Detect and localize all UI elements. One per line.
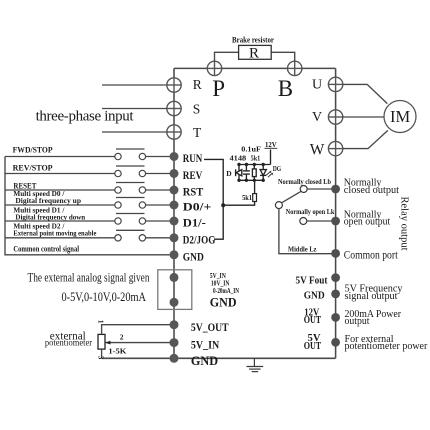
svg-text:S: S	[193, 102, 201, 117]
terminal S	[167, 101, 181, 115]
node 12V OUT	[331, 313, 340, 322]
svg-text:potentiometer: potentiometer	[45, 339, 93, 349]
relay pivot Lz	[275, 202, 282, 209]
svg-text:R: R	[193, 77, 202, 92]
relay arm	[282, 191, 301, 202]
digital input row REV/STOP	[5, 163, 174, 177]
svg-text:D: D	[226, 169, 232, 178]
terminal V	[328, 110, 342, 124]
svg-text:V: V	[312, 110, 322, 125]
wire S phase input	[102, 108, 167, 110]
svg-text:W: W	[310, 141, 325, 158]
digital input row D1	[5, 205, 174, 224]
wire snubber bottom rail	[239, 179, 263, 181]
svg-text:IM: IM	[390, 107, 410, 126]
svg-text:closed output: closed output	[344, 185, 399, 196]
svg-text:2: 2	[120, 332, 124, 341]
wire RUN to snubber and D2 hook	[204, 159, 223, 239]
terminal W	[328, 141, 342, 155]
svg-text:OUT: OUT	[304, 315, 322, 326]
relay contact NO Lk	[300, 218, 307, 225]
svg-text:U: U	[312, 78, 322, 93]
switch REV/STOP	[116, 165, 145, 167]
svg-text:Brake resistor: Brake resistor	[232, 35, 274, 45]
svg-text:T: T	[193, 125, 202, 140]
svg-text:0-20mA_IN: 0-20mA_IN	[213, 287, 239, 295]
svg-text:B: B	[278, 76, 293, 101]
node REV	[170, 169, 179, 178]
digital input row FWD/STOP	[5, 145, 174, 160]
svg-text:External point moving enable: External point moving enable	[13, 229, 97, 238]
svg-text:The external analog signal giv: The external analog signal given	[28, 270, 150, 285]
svg-text:Common control signal: Common control signal	[13, 244, 79, 254]
svg-text:FWD/STOP: FWD/STOP	[13, 145, 53, 155]
svg-text:Normally open Lk: Normally open Lk	[286, 207, 335, 216]
wire 5k1 to bottom rail	[254, 180, 256, 193]
node snubber rail dots	[237, 163, 265, 182]
svg-text:GND: GND	[304, 291, 325, 302]
wire pot pin2 wiper	[105, 342, 174, 344]
wire row REV	[5, 173, 115, 175]
svg-text:12V: 12V	[265, 140, 277, 149]
wire pot pin1	[102, 325, 174, 335]
svg-text:RST: RST	[183, 187, 204, 199]
svg-text:1-5K: 1-5K	[108, 347, 126, 356]
wire bottom edge GND	[102, 357, 336, 359]
wire top edge	[174, 67, 336, 69]
digital input row D0	[5, 189, 174, 208]
svg-text:Relay output: Relay output	[399, 197, 410, 251]
svg-text:0-5V,0-10V,0-20mA: 0-5V,0-10V,0-20mA	[62, 289, 147, 304]
node GND out	[331, 290, 340, 299]
node RUN	[170, 152, 179, 161]
svg-text:REV: REV	[183, 170, 203, 182]
svg-text:potentiometer power: potentiometer power	[345, 341, 428, 352]
node GND bottom	[170, 354, 179, 363]
capacitor 0.1uF	[243, 165, 250, 181]
node 5V_IN left	[170, 338, 179, 347]
node D0	[170, 201, 179, 210]
wiper arrow	[105, 341, 111, 345]
node NC output	[331, 185, 340, 194]
wire row D2	[5, 237, 115, 239]
svg-text:Digital frequency down: Digital frequency down	[15, 212, 86, 221]
svg-text:D0/+: D0/+	[183, 202, 212, 214]
terminal R	[167, 78, 181, 92]
svg-text:R: R	[249, 46, 259, 62]
svg-text:DG: DG	[273, 164, 282, 173]
wire row D1	[5, 220, 115, 222]
svg-text:5V_OUT: 5V_OUT	[191, 322, 229, 334]
motor IM	[384, 101, 416, 133]
node NO output	[331, 217, 340, 226]
wire right bus vertical	[335, 68, 337, 358]
switch D0	[116, 197, 145, 199]
relay contact NC Lb	[300, 186, 307, 193]
node snubber junction	[221, 203, 225, 207]
node 5V_OUT left	[170, 320, 179, 329]
terminal U	[328, 77, 342, 91]
node D1	[170, 217, 179, 226]
switch D1	[116, 213, 145, 215]
wire junction to 5k1	[223, 202, 254, 206]
wire row RST	[5, 189, 115, 191]
resistor 5k1 branch	[252, 165, 256, 181]
wire NC to bus	[307, 188, 335, 190]
wire T phase input	[102, 131, 167, 133]
wire left bus vertical	[173, 68, 175, 358]
wire pot pin3	[101, 349, 103, 358]
svg-text:Digital frequency up: Digital frequency up	[15, 196, 81, 205]
diode D	[236, 165, 242, 181]
resistor 5k1 lower	[253, 194, 257, 202]
switch FWD/STOP	[116, 148, 145, 150]
svg-text:Common port: Common port	[344, 248, 399, 262]
wire V to motor	[343, 116, 384, 118]
svg-text:GND: GND	[183, 252, 204, 264]
resistor R brake	[239, 45, 272, 59]
svg-text:open output: open output	[344, 217, 390, 228]
svg-text:5V_IN: 5V_IN	[191, 340, 220, 352]
svg-text:5V Fout: 5V Fout	[296, 274, 328, 286]
terminal B	[288, 61, 302, 75]
wire snubber top rail	[239, 164, 271, 166]
wire input common rail	[5, 157, 170, 255]
wire row RUN	[5, 156, 115, 158]
node analog gnd	[170, 298, 179, 307]
svg-text:5k1: 5k1	[242, 193, 252, 202]
switch RESET	[116, 182, 145, 184]
potentiometer 1-5K	[98, 334, 105, 349]
svg-text:5k1: 5k1	[251, 153, 261, 162]
wire NO to bus	[307, 220, 336, 222]
node RST	[170, 186, 179, 195]
svg-text:GND: GND	[210, 295, 237, 309]
svg-text:3: 3	[97, 356, 106, 360]
svg-text:Middle Lz: Middle Lz	[288, 245, 317, 254]
digital input row D2	[5, 222, 174, 241]
wire brake resistor right	[271, 52, 295, 61]
node 5V OUT	[331, 338, 340, 347]
svg-text:Normally closed Lb: Normally closed Lb	[278, 177, 331, 186]
svg-text:4148: 4148	[230, 153, 247, 162]
svg-text:RUN: RUN	[183, 153, 203, 165]
svg-text:REV/STOP: REV/STOP	[13, 163, 53, 173]
node D2	[170, 233, 179, 242]
node GND control	[170, 250, 179, 259]
svg-text:D2/JOG: D2/JOG	[183, 235, 216, 247]
node analog in	[170, 273, 179, 282]
svg-text:output: output	[345, 316, 370, 327]
node common port	[331, 249, 340, 258]
LED DG	[260, 165, 266, 181]
wire brake resistor left	[215, 52, 239, 61]
wire U to motor	[343, 84, 388, 103]
wire row D0	[5, 204, 115, 206]
terminal T	[167, 125, 181, 139]
switch D2	[116, 229, 145, 231]
svg-text:D1/-: D1/-	[183, 218, 206, 230]
svg-text:0.1uF: 0.1uF	[241, 145, 261, 154]
svg-text:signal output: signal output	[345, 291, 398, 302]
wire R phase input	[102, 84, 167, 86]
LED arrows	[266, 172, 272, 178]
svg-text:three-phase input: three-phase input	[36, 109, 135, 125]
svg-text:P: P	[212, 76, 225, 101]
wire 12V drop	[270, 150, 272, 165]
svg-text:GND: GND	[191, 354, 218, 368]
svg-text:OUT: OUT	[304, 341, 322, 352]
analog input block	[158, 270, 192, 310]
node 5V Fout	[331, 273, 340, 282]
svg-text:1: 1	[97, 320, 106, 324]
wire pivot to common	[279, 209, 336, 254]
ground earth symbol	[247, 358, 264, 371]
digital input row RESET	[5, 180, 174, 193]
terminal P	[207, 61, 221, 75]
wire W to motor	[343, 130, 388, 148]
